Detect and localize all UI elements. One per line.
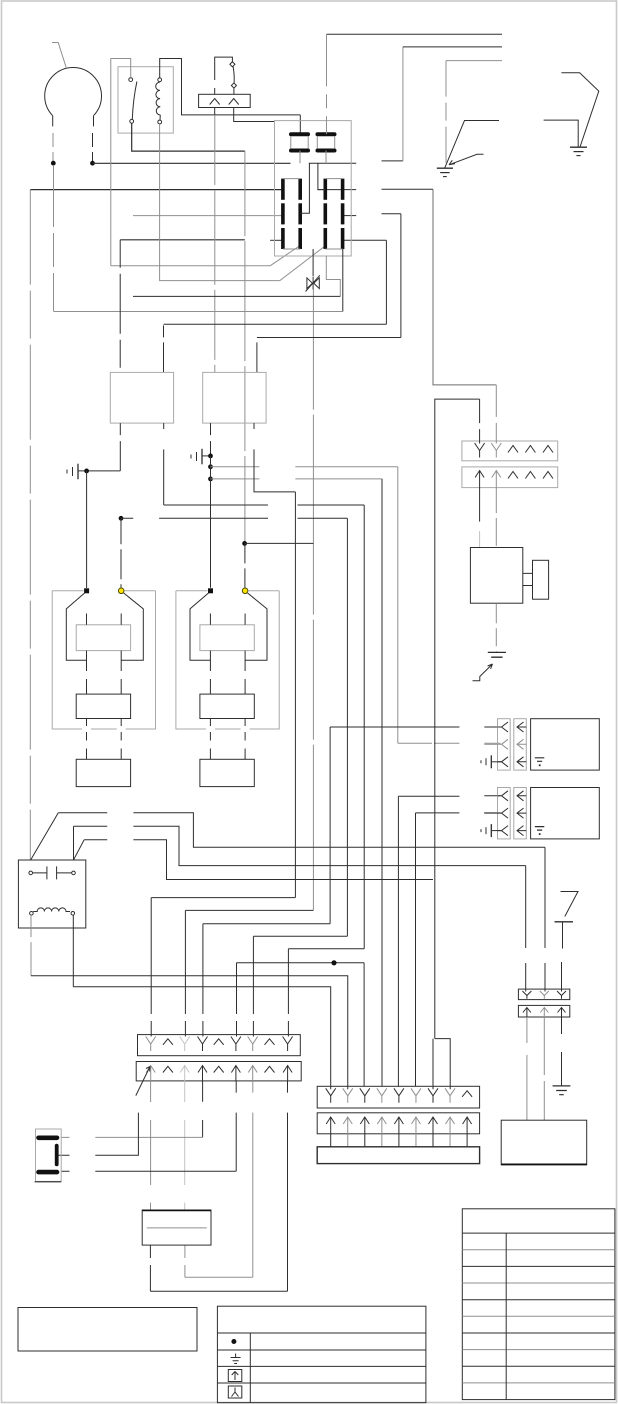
legend symbol ground xyxy=(231,1354,241,1364)
ECU side box xyxy=(533,560,549,599)
injection unit 2 row3 chevrons xyxy=(498,826,509,836)
connector X4 lower strip xyxy=(136,1062,301,1081)
ground GND3 (assembly1) xyxy=(77,464,79,480)
wire X1 pin1 stub down xyxy=(214,108,216,115)
node horn right terminal xyxy=(90,161,95,166)
wire y518 rail xyxy=(121,517,347,519)
wire x347 drop xyxy=(346,518,348,936)
wire y1277 to heater bottom-right xyxy=(185,1245,253,1277)
X4 upper pin8 xyxy=(265,1039,275,1045)
diagonal into fuse bank 1 xyxy=(270,247,298,266)
fusible link middle lead xyxy=(58,1113,138,1156)
wire y120 to GND2 xyxy=(544,120,579,147)
injection unit 2 module box xyxy=(531,788,600,839)
heater R1 midline xyxy=(147,1227,207,1229)
title block table xyxy=(462,1209,615,1400)
X5 upper pin6 xyxy=(411,1088,421,1103)
bank B internal link xyxy=(318,163,325,189)
ignition coil T2 lower leads xyxy=(209,719,211,760)
wire strip1 pin6 riser xyxy=(236,963,238,1037)
wire y963 xyxy=(237,962,365,964)
wire K2 diag to L3 xyxy=(74,840,85,860)
X2 pin1 stem up xyxy=(479,399,481,443)
X4 upper pin7 xyxy=(248,1037,258,1052)
relay K1 switch contact bottom xyxy=(130,119,134,123)
X5 upper pin1 xyxy=(326,1088,336,1103)
wire x30 drop to relay K2 xyxy=(29,190,31,860)
ignition coil T1 lower leads xyxy=(86,719,88,760)
injection unit 1 row2 stub xyxy=(484,743,497,745)
horn B1 xyxy=(45,68,102,116)
wire fuse gray jog x326 xyxy=(326,256,340,296)
horn actuator tick xyxy=(52,43,66,69)
wire dots line 2 (y479) xyxy=(211,478,383,480)
relay K1 coil xyxy=(158,78,162,82)
injection unit 1 internal ground xyxy=(535,758,545,762)
wire y266 to diagonal xyxy=(111,265,270,267)
ignition coil T1 winding leads xyxy=(86,614,88,695)
X2 pin1 lead down xyxy=(479,485,481,522)
wire module2 top-right riser to y337 xyxy=(256,338,258,373)
ECU ground lead xyxy=(495,603,497,652)
X2 pin2 lead down to ECU xyxy=(495,485,497,548)
wire x54 horn left drop xyxy=(53,165,55,312)
wire y924 xyxy=(203,923,330,925)
wire y910 to strip pin3 xyxy=(185,909,313,911)
wire y898 xyxy=(151,897,295,899)
wire X4L pin4 to fusible link xyxy=(202,1081,204,1138)
X5 upper pin7 xyxy=(428,1088,438,1103)
wire y189 segment to x433 riser xyxy=(382,188,434,190)
legend symbol boxed arrow up xyxy=(228,1370,242,1382)
heater R1 box xyxy=(142,1210,211,1245)
bank A internal link xyxy=(300,163,309,213)
fusible link block F3 xyxy=(36,1129,62,1181)
fuse bank B (battery cells) xyxy=(323,179,327,200)
X5 middle pin2 arrow xyxy=(343,1117,352,1147)
X4 upper pin2 xyxy=(163,1039,173,1045)
relay K2 contact xyxy=(29,871,33,875)
wire x121 to yellow1 xyxy=(120,518,122,587)
fuse F2 xyxy=(318,132,335,136)
wire module1 bottom-left lead xyxy=(119,423,121,471)
ground GND4 (assembly2) xyxy=(201,449,203,465)
node horn left terminal xyxy=(51,161,56,166)
X5 middle pin4 arrow xyxy=(377,1117,386,1147)
wire y976 to bc pin2 xyxy=(31,976,348,1090)
relay K1 box xyxy=(118,67,173,133)
wire y949 xyxy=(288,948,364,950)
ignition coil T2 primary winding box xyxy=(200,625,254,651)
X5 middle pin6 arrow xyxy=(411,1117,420,1147)
X2 pin4 glyphs xyxy=(525,446,535,453)
injection unit 2 connector B xyxy=(514,788,527,839)
wire unit2 row1 (y796) xyxy=(398,795,500,797)
wire x253 to strip1 pin7 xyxy=(252,936,254,1036)
legend symbol junction dot xyxy=(231,1339,236,1344)
wire y1291 to heater bottom-left xyxy=(150,1245,287,1291)
relay K2 coil xyxy=(30,912,34,916)
F3 element middle xyxy=(55,1146,59,1165)
X5 middle pin5 arrow xyxy=(394,1117,403,1147)
X5 middle pin7 arrow xyxy=(429,1117,438,1147)
wire x210 down to assembly2 black terminal xyxy=(210,456,212,588)
injection unit 2 internal ground xyxy=(535,827,545,831)
X2 pin5 glyphs xyxy=(543,446,553,453)
wire X4L pin6 to fusible link bottom xyxy=(235,1081,237,1171)
ground GND5 with strike xyxy=(488,652,506,657)
node junction yellow1 feed xyxy=(119,516,124,521)
X5 upper pin5 xyxy=(394,1088,404,1103)
X5 middle pin9 arrow xyxy=(463,1117,472,1147)
wire x151 to strip1 pin1 xyxy=(150,898,152,1037)
injection unit 2 row2 chevrons xyxy=(498,808,509,818)
wire y240 into fuse box xyxy=(270,239,283,241)
wire y190 fuse right stub xyxy=(318,189,356,191)
X5 middle pin8 arrow xyxy=(446,1117,455,1147)
X2 pin3 glyphs xyxy=(508,446,518,453)
wire x330 drop xyxy=(329,727,331,924)
wire x343 from box bottom xyxy=(342,249,344,312)
connector X3 lower xyxy=(518,1005,569,1017)
wire x398 drop to bc pin5 xyxy=(397,796,399,1086)
ground GND6 xyxy=(553,1086,571,1095)
connector X1 pin2 chevron xyxy=(229,99,239,105)
wire K2 diag to L1 xyxy=(31,813,59,860)
wire module2 bottom-right to y492 xyxy=(254,423,295,492)
X4 lower pin5 xyxy=(214,1066,224,1072)
wire module1 bottom-right to y505 xyxy=(163,423,165,505)
wire module2 bottom-left lead xyxy=(210,423,212,456)
switch S1 above connector xyxy=(215,57,233,94)
X4 upper pin9 xyxy=(283,1037,293,1052)
ignition coil T2 inner diagonals xyxy=(190,593,210,660)
node junction A2b xyxy=(208,464,213,469)
X3 pin1 lead down xyxy=(526,1017,528,1120)
wire K2 coil leads down xyxy=(30,915,32,976)
relay K1 switch blade xyxy=(132,82,137,120)
wire L1 xyxy=(58,813,545,848)
fuse F1 xyxy=(291,132,308,136)
fuse F1 top lead xyxy=(299,115,301,134)
sensor box B2 xyxy=(501,1120,587,1165)
ground GND2 xyxy=(570,146,587,148)
connector X2 lower half xyxy=(462,467,558,488)
connector X3 upper xyxy=(518,989,569,1000)
connector X2 upper half xyxy=(462,441,558,461)
wire x245 drop to yellow node 2 xyxy=(244,151,246,543)
X3 pin2 lead down xyxy=(543,1017,545,1120)
wire x203 to strip1 pin4 xyxy=(202,924,204,1037)
diode VD1 xyxy=(312,249,314,276)
ignition coil T1 primary winding box xyxy=(76,625,130,651)
fusible link top lead y1137 xyxy=(61,1136,202,1138)
wire y240 from module1 top-left xyxy=(120,239,245,241)
wire relay switch top xyxy=(111,59,131,266)
injection unit 1 module box xyxy=(531,719,600,770)
ECU box U1 xyxy=(470,548,522,604)
ignition coil T1 black terminal xyxy=(84,588,89,593)
legend table xyxy=(217,1306,426,1403)
wire x433 lower (X2 pin1 / L3 to bc pin7-8 hook) xyxy=(433,399,480,1089)
X5 middle pin3 arrow xyxy=(360,1117,369,1147)
fusible link bottom lead y1171 xyxy=(61,1170,236,1172)
ignition coil T1 outer frame xyxy=(52,590,155,592)
GND2 wire xyxy=(561,73,598,147)
X4 lower pin2 xyxy=(163,1066,173,1072)
wire riser x403 xyxy=(402,47,404,161)
wire X4L pin7 down xyxy=(252,1081,254,1277)
wire y337 to riser x401 xyxy=(257,337,401,339)
wire unit1 row2 (y743 gray) xyxy=(398,742,501,744)
injection unit 1 row2 chevrons xyxy=(498,739,509,749)
node junction A2c xyxy=(208,477,213,482)
X4 lower pin8 xyxy=(265,1066,275,1072)
X4 lower pin7 xyxy=(248,1066,257,1081)
wire y987 to bc pin1 xyxy=(73,987,330,1090)
horn lead right (dashed) xyxy=(92,133,94,161)
fuse F1 bottom lead xyxy=(299,151,301,164)
wire dots line 1 (y467) xyxy=(211,466,398,468)
X5 upper pin9 xyxy=(462,1091,472,1097)
connector X5 blank strip xyxy=(317,1147,479,1164)
wire y240 fuse right stub to riser x386 xyxy=(343,239,387,241)
sensor switch to ground SG1 xyxy=(561,892,579,917)
ignition coil T2 plug box xyxy=(200,759,254,786)
injection unit 1 connector B xyxy=(514,719,527,770)
X4 upper pin3 xyxy=(180,1037,190,1052)
wire x295 drop xyxy=(294,492,296,898)
wire x446 dashed to ground xyxy=(445,61,447,165)
X3 pin3 glyphs xyxy=(557,991,566,999)
X4 lower pin9 xyxy=(283,1066,292,1081)
wire y34 top from fuse2 lead xyxy=(327,33,503,35)
wire unit1 row1 (y727) xyxy=(330,726,500,728)
wire y296 xyxy=(133,295,340,297)
ignition coil T2 secondary box xyxy=(200,694,254,718)
wire y214 segment to riser x401 xyxy=(382,213,401,215)
injection unit 1 connector A xyxy=(498,719,511,770)
ignition coil T2 winding leads xyxy=(209,614,211,695)
wire unit2 row2 (y813) xyxy=(416,812,501,814)
module A1 box xyxy=(110,372,173,423)
injection unit 2 connector A xyxy=(498,788,511,839)
injection unit 2 ground lead external xyxy=(492,830,502,832)
X5 upper pin4 xyxy=(377,1088,387,1103)
wire x364 drop xyxy=(363,505,365,949)
ignition coil T2 outer frame xyxy=(176,590,279,592)
ignition coil T1 plug box xyxy=(76,759,130,786)
X3 pin3 lead to ground xyxy=(561,1017,563,1086)
module A2 box xyxy=(203,372,266,423)
wire X1 pin2 to fuse box top xyxy=(234,108,275,122)
injection unit 2 row2 stub xyxy=(484,812,497,814)
X4 lower pin4 xyxy=(198,1066,207,1081)
connector X1 pin1 chevron xyxy=(210,99,220,105)
wire X4L pin9 down xyxy=(287,1081,289,1291)
wire y936 xyxy=(253,935,347,937)
node junction y963 xyxy=(331,960,336,965)
wire y543 rail xyxy=(245,542,314,544)
ECU side links xyxy=(523,573,533,585)
wire y505 rail xyxy=(164,504,365,506)
wire y47 top xyxy=(403,46,502,48)
connector X4 upper strip xyxy=(138,1035,301,1056)
fuse F2 bottom lead xyxy=(325,151,327,164)
connector X1 box xyxy=(199,94,251,107)
wire relay coil top to connector/fuse1 xyxy=(160,59,301,115)
X2 pin2 stem up xyxy=(495,385,497,444)
wire x215 long drop to module2 top-left xyxy=(214,115,216,373)
wire L2 xyxy=(74,826,526,865)
wire x288 to strip1 pin9 xyxy=(287,949,289,1037)
wire module1 top-right riser to y324 xyxy=(163,326,165,373)
wire to X3 pin3 xyxy=(561,962,563,992)
wire y61 gray top xyxy=(446,60,502,62)
X5 middle pin1 arrow xyxy=(326,1117,335,1147)
ignition coil T2 yellow terminal xyxy=(242,588,248,594)
injection unit 1 row1 chevrons xyxy=(498,722,509,732)
injection unit 1 ground lead external xyxy=(492,761,502,763)
wire y216 fuse right stub xyxy=(343,215,357,217)
X4 lower pin6 xyxy=(231,1066,240,1081)
X4 upper pin4 xyxy=(198,1037,208,1052)
GND1 strike arrow xyxy=(449,154,484,165)
wire x398 drop to unit1 row2 xyxy=(397,467,399,744)
wire x433 upper (fuse y189 to X2 pin2 feed) xyxy=(433,189,496,385)
relay K2 box xyxy=(18,860,85,928)
wire y163 inside fuse box right stub xyxy=(309,162,356,164)
note box bottom-left xyxy=(18,1308,197,1352)
X5 upper pin3 xyxy=(360,1088,370,1103)
ground GND1 xyxy=(437,167,453,169)
X4 pointer arrow xyxy=(136,1067,150,1096)
wire relay coil bottom drop xyxy=(160,124,280,281)
wire y311 horn-left rail xyxy=(54,311,343,313)
wire X4L pin1 to heater top-left xyxy=(150,1081,152,1210)
F3 element bottom xyxy=(39,1170,58,1175)
X4 upper pin5 xyxy=(214,1039,224,1045)
wire y163 horn right to fuse box xyxy=(93,162,291,164)
relay K1 switch contact top xyxy=(129,78,133,82)
ignition coil T1 inner diagonals xyxy=(66,593,86,660)
X4 lower pin3 xyxy=(180,1066,189,1081)
wire y216 xyxy=(133,215,283,217)
node junction yellow2 feed xyxy=(242,541,247,546)
wire x313 diode to strip1 pin3 path xyxy=(312,290,314,911)
wire K2 riser to L2 xyxy=(73,826,75,860)
wire y161 segment to riser xyxy=(382,160,403,162)
X3 pin2 glyphs xyxy=(540,991,549,999)
node junction A1 xyxy=(84,469,89,474)
F3 element top xyxy=(39,1136,58,1141)
wire L3 xyxy=(84,840,433,880)
diagonal into fuse bank 2 xyxy=(280,247,325,281)
connector X5 upper strip xyxy=(317,1086,479,1108)
connector X5 middle strip xyxy=(317,1113,479,1134)
X4 lower pin1 xyxy=(146,1066,155,1081)
X4 upper pin1 xyxy=(146,1037,156,1052)
fuse bank A (battery cells) xyxy=(281,179,285,200)
wire x364 to bc pin3 xyxy=(363,963,365,1087)
wire relay switch bottom to x245 drop xyxy=(132,123,245,151)
fuse box outline xyxy=(275,121,352,256)
wire module1 top-left lead xyxy=(119,240,121,373)
injection unit 2 row1 chevrons xyxy=(498,791,509,801)
node junction A2a xyxy=(208,454,213,459)
legend symbol boxed arrow into xyxy=(228,1386,242,1398)
horn lead left (dashed) xyxy=(52,133,54,161)
X5 upper pin2 xyxy=(343,1088,353,1103)
X2 pin1 glyphs xyxy=(475,443,485,458)
wire x245 dot to yellow2 xyxy=(244,543,246,587)
wire X4L pin3 to heater top-right xyxy=(184,1081,186,1210)
wire x382 drop to bc pin4 xyxy=(381,479,383,1086)
injection unit 1 row3 chevrons xyxy=(498,757,509,767)
X4 upper pin6 xyxy=(231,1037,241,1052)
X2 pin2 glyphs xyxy=(491,443,501,458)
wire y324 to riser x386 xyxy=(164,323,387,325)
wire x86 down to assembly1 black terminal xyxy=(86,471,88,588)
ignition coil T1 secondary box xyxy=(76,694,130,718)
GND1 riser diagonal xyxy=(445,121,499,168)
ignition coil T1 yellow terminal xyxy=(118,588,124,594)
ignition coil T2 black terminal xyxy=(208,588,213,593)
fuse F2 top lead xyxy=(326,34,328,134)
wire y190 long rail xyxy=(30,189,283,191)
X5 upper pin8 xyxy=(445,1088,455,1103)
wire x415 drop to bc pin6 xyxy=(415,813,417,1086)
X3 pin1 glyphs xyxy=(522,991,531,999)
